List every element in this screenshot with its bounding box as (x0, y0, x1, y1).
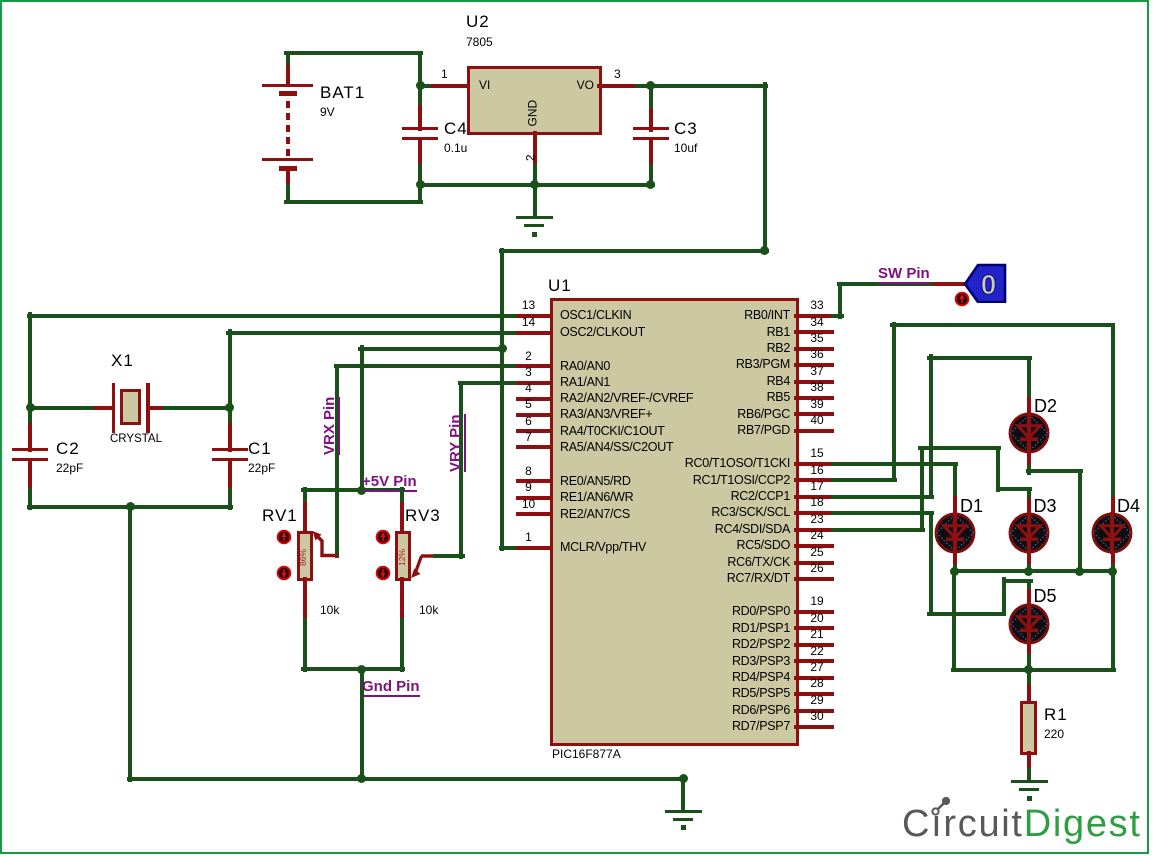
X1 label (111, 351, 134, 370)
D2 top pin (1027, 397, 1031, 416)
junction +5V pin node (357, 486, 366, 495)
LED D5 (1006, 601, 1052, 647)
wire gnd stem (533, 183, 537, 219)
U1 pin 27 number (810, 661, 823, 674)
capacitor C4 plate1 (402, 127, 438, 130)
wire U2 gnd (533, 164, 537, 188)
RV1 percent (299, 549, 309, 566)
RV1 bottom wire (303, 618, 307, 672)
net VRX Pin (322, 397, 339, 455)
RV3 percent (398, 549, 408, 566)
wire cathode bus (951, 569, 1115, 573)
D5 label (1034, 586, 1057, 606)
U2 VI (479, 79, 490, 92)
U1 pin 7 stub (516, 445, 553, 449)
junction vcc tee (498, 344, 507, 353)
wire +5V pin rail (301, 488, 405, 492)
U1 pin label RA0/AN0 (560, 359, 610, 373)
net Gnd Pin (362, 679, 420, 696)
R1 top pin (1027, 684, 1031, 704)
U1 pin 30 number (810, 710, 823, 723)
ground bottom dot (681, 825, 686, 830)
U1 pin 39 stub (794, 412, 834, 416)
U1 pin 3 number (525, 366, 532, 379)
wire RC4 (831, 528, 925, 532)
wire RC2 up (929, 354, 933, 498)
U2 pin1 number (441, 68, 448, 81)
junction bus D4 (1108, 567, 1117, 576)
RV3 up button (375, 529, 391, 545)
U1 pin 20 stub (794, 626, 834, 630)
R1 bottom pin (1027, 751, 1031, 773)
U1 pin 29 stub (794, 709, 834, 713)
U1 pin 17 stub (794, 495, 834, 499)
wire RC2 down D2 (1027, 356, 1031, 402)
U1 pin label RC4/SDI/SDA (715, 522, 790, 536)
wire RC3 down D5 (1027, 579, 1031, 594)
SW red link (933, 282, 967, 286)
wire RC4 down (996, 446, 1000, 492)
wire C2 bottom (28, 488, 32, 510)
potentiometer RV3 (395, 531, 411, 582)
capacitor C1 value (248, 462, 275, 475)
wire RB0 out (831, 314, 844, 318)
D1 bottom pin (953, 551, 957, 569)
capacitor C3 label (674, 119, 698, 138)
U1 pin label RD6/PSP6 (732, 703, 790, 717)
U2 pin3 number (614, 68, 621, 81)
wire D2 across (1026, 469, 1083, 473)
ground right bar1 (1011, 780, 1048, 783)
capacitor C2 label (56, 439, 80, 458)
U1 pin label RC1/T1OSI/CCP2 (693, 473, 790, 487)
wire OSC2 (226, 331, 520, 335)
wire R1 top (1027, 668, 1031, 689)
U1 pin label RA1/AN1 (560, 375, 610, 389)
wire C4 to node B (418, 164, 422, 188)
junction bus D3 (1024, 567, 1033, 576)
wire RC1 (831, 478, 897, 482)
wire RC2 (831, 495, 934, 499)
U1 pin 22 number (810, 645, 823, 658)
RV1 top wire (303, 487, 307, 507)
RV3 bottom pin (400, 577, 404, 623)
U1 pin label RA2/AN2/VREF-/CVREF (560, 391, 693, 405)
wire RC3 (831, 511, 934, 515)
U1 pin 40 number (810, 414, 823, 427)
wire RA1 (458, 381, 521, 385)
C3 bottom pin (649, 139, 653, 169)
U1 pin 17 number (810, 480, 823, 493)
U1 pin 15 number (810, 447, 823, 460)
U1 pin 36 number (810, 348, 823, 361)
wire vcc left (499, 249, 769, 253)
capacitor C4 plate2 (402, 137, 438, 140)
RV1 value 10k (320, 604, 339, 617)
wire vcc branch (358, 347, 505, 351)
U1 pin label RB3/PGM (736, 357, 790, 371)
RV1 label (262, 506, 298, 525)
U1 pin 5 stub (516, 413, 553, 417)
wire RA0 (334, 364, 521, 368)
RV1 down button (276, 565, 292, 581)
U1 pin 38 stub (794, 396, 834, 400)
wire battery+ top (284, 51, 423, 55)
ground top bar2 (524, 224, 544, 227)
wire bus right down (1111, 569, 1115, 672)
microcontroller U1 PIC16F877A (550, 298, 799, 746)
U1 pin 19 stub (794, 610, 834, 614)
U1 pin label RB1 (767, 325, 790, 339)
wire crystal gnd (27, 505, 233, 509)
U1 pin label RC7/RX/DT (727, 571, 790, 585)
wire R1 gnd (1027, 768, 1031, 782)
U1 pin label RC5/SDO (737, 538, 790, 552)
RV1 up button (276, 529, 292, 545)
U1 pin 4 number (525, 382, 532, 395)
U1 pin 22 stub (794, 659, 834, 663)
U2 value 7805 (466, 36, 493, 49)
C2 top pin (28, 423, 32, 452)
U1 pin 29 number (810, 694, 823, 707)
wire node C down (649, 84, 653, 113)
wire osc1 left vert (28, 312, 32, 410)
wire C1 bottom (228, 488, 232, 510)
C3 top pin (649, 108, 653, 132)
U1 pin 14 stub (516, 331, 553, 335)
wire SW pin (837, 282, 938, 286)
wire RC3 up (1002, 577, 1006, 615)
U1 pin 1 number (525, 531, 532, 544)
U1 pin label RC2/CCP1 (731, 489, 790, 503)
wire U2 to node C (635, 84, 654, 88)
potentiometer RV1 (297, 531, 313, 582)
RV3 top pin (400, 502, 404, 534)
U1 pin label RB5 (767, 390, 790, 404)
CircuitDigest logo (902, 803, 1142, 846)
D5 bottom pin (1027, 642, 1031, 658)
wire battery+ vert (286, 51, 290, 70)
U1 pin 33 stub (794, 314, 834, 318)
U1 pin 34 number (810, 316, 823, 329)
RV3 top wire (400, 487, 404, 507)
wire MCLR (499, 546, 521, 550)
RV1 top pin (303, 502, 307, 534)
crystal X1 (112, 383, 116, 433)
U1 pin label RB0/INT (744, 308, 790, 322)
net VRY Pin (448, 414, 465, 472)
U1 pin label RD7/PSP7 (732, 719, 790, 733)
U1 pin 5 number (525, 398, 532, 411)
X1 right pin (146, 406, 166, 410)
capacitor C4 label (444, 119, 468, 138)
junction bus D1 (950, 567, 959, 576)
junction bus D2 (1075, 567, 1084, 576)
U1 pin 21 number (810, 628, 823, 641)
U1 pin 34 stub (794, 330, 834, 334)
U1 pin 1 stub (516, 546, 553, 550)
junction R1 node (1024, 665, 1033, 674)
wire RC4 down D3 (1027, 487, 1031, 503)
U1 pin 16 number (810, 464, 823, 477)
capacitor C1 label (248, 439, 272, 458)
wire gnd pin down (360, 667, 364, 781)
U1 pin 24 number (810, 529, 823, 542)
U1 pin 26 number (810, 562, 823, 575)
wire C3 to bus (649, 164, 653, 188)
C4 top pin (418, 105, 422, 131)
D2 bottom pin (1027, 450, 1031, 468)
U1 pin label RC0/T1OSO/T1CKI (685, 456, 790, 470)
resistor R1 (1020, 701, 1037, 755)
U1 pin 10 stub (516, 512, 553, 516)
D2 label (1034, 396, 1057, 416)
U2 pin2 number (525, 154, 538, 161)
U1 pin label RD3/PSP3 (732, 654, 790, 668)
wire anode bus (951, 668, 1116, 672)
U1 pin 25 stub (794, 561, 834, 565)
wire node A down (418, 84, 422, 110)
U1 pin 35 stub (794, 347, 834, 351)
logo i decoration (928, 795, 954, 817)
U2 pin3 stub (597, 84, 639, 88)
wire bottom to node B (418, 183, 422, 204)
junction node B (416, 180, 425, 189)
wire battery- bottom (284, 200, 423, 204)
wire D3 to bus (1027, 564, 1031, 574)
D1 top pin (953, 496, 957, 516)
wire vcc down right (763, 82, 767, 254)
R1 value 220 (1044, 728, 1064, 741)
U1 pin 37 number (810, 365, 823, 378)
wire D5 to bus (1027, 654, 1031, 672)
RV3 label (405, 506, 441, 525)
value 9V (320, 106, 335, 119)
capacitor C2 value (56, 462, 83, 475)
RV3 wiper (408, 550, 440, 580)
U1 pin label RB7/PGD (737, 423, 790, 437)
U1 pin label RE1/AN6/WR (560, 490, 633, 504)
U2 GND (527, 100, 540, 127)
junction crystal left (26, 403, 35, 412)
U1 pin label OSC1/CLKIN (560, 308, 631, 322)
wire RB0 up (838, 282, 842, 319)
junction crystal gnd (126, 502, 135, 511)
U1 pin 2 number (525, 350, 532, 363)
capacitor C2 plate2 (12, 458, 48, 461)
C1 bottom pin (228, 459, 232, 493)
wire RC1 top (890, 323, 1115, 327)
wire D2 to bus (1078, 469, 1082, 574)
U1 pin 18 stub (794, 511, 834, 515)
U2 label (466, 12, 490, 31)
wire RC1 down D4 (1111, 323, 1115, 501)
wire RC3 top (1002, 579, 1033, 583)
junction vcc corner (760, 246, 769, 255)
U1 pin 25 number (810, 546, 823, 559)
LED D2 (1006, 410, 1052, 456)
battery top pin (286, 65, 290, 87)
wire battery- vert (286, 184, 290, 204)
X1 left pin (94, 406, 114, 410)
U1 pin 35 number (810, 332, 823, 345)
RV3 down button (375, 565, 391, 581)
U1 pin label RA4/T0CKI/C1OUT (560, 424, 665, 438)
U1 pin 6 number (525, 415, 532, 428)
RV3 value 10k (419, 604, 438, 617)
LED D4 (1089, 510, 1135, 556)
U1 label (548, 276, 572, 295)
R1 label (1044, 705, 1068, 724)
capacitor C3 plate1 (633, 127, 669, 130)
U1 pin 2 stub (516, 364, 553, 368)
U1 pin 28 stub (794, 692, 834, 696)
capacitor C2 plate1 (12, 448, 48, 451)
U1 pin 14 number (522, 316, 535, 329)
U1 pin label RE2/AN7/CS (560, 507, 630, 521)
wire RC1 up (892, 322, 896, 482)
D3 top pin (1027, 498, 1031, 516)
wire crystal gnd down (128, 505, 132, 782)
junction node A (416, 81, 425, 90)
wire VRX vert (335, 364, 339, 558)
U1 pin label RD4/PSP4 (732, 670, 790, 684)
U1 pin label RC3/SCK/SCL (711, 505, 790, 519)
U1 pin label RA3/AN3/VREF+ (560, 407, 652, 421)
U1 pin 18 number (810, 496, 823, 509)
junction crystal right (225, 403, 234, 412)
wire RC4 up (920, 446, 924, 532)
RV1 bottom pin (303, 577, 307, 623)
U1 pin label MCLR/Vpp/THV (560, 540, 646, 554)
U1 pin 36 stub (794, 363, 834, 367)
U1 pin 38 number (810, 381, 823, 394)
U1 pin label OSC2/CLKOUT (560, 325, 645, 339)
U1 pin label RB4 (767, 374, 790, 388)
junction C3 gnd (646, 180, 655, 189)
connector J0 (SW) (963, 263, 1008, 303)
X1 value CRYSTAL (110, 433, 162, 446)
wire C1 top (228, 406, 232, 428)
wire crystal left (27, 406, 99, 410)
D5 top pin (1027, 589, 1031, 605)
junction bottom 2 (679, 774, 688, 783)
wire bus left down (952, 569, 956, 672)
wire D4 to bus (1111, 564, 1115, 574)
ground bottom bar1 (665, 810, 702, 813)
capacitor C3 plate2 (633, 137, 669, 140)
RV3 wiper link green (433, 554, 465, 558)
U1 pin label RD5/PSP5 (732, 686, 790, 700)
capacitor C3 value (674, 142, 697, 155)
D3 bottom pin (1027, 551, 1031, 569)
U1 pin label RA5/AN4/SS/C2OUT (560, 440, 673, 454)
U1 pin 8 stub (516, 479, 553, 483)
C2 bottom pin (28, 459, 32, 493)
U1 pin 10 number (522, 498, 535, 511)
U1 pin 33 number (810, 299, 823, 312)
U2 VO (577, 79, 594, 92)
U1 pin 4 stub (516, 397, 553, 401)
U1 pin 27 stub (794, 676, 834, 680)
ground bottom bar2 (673, 818, 693, 821)
wire bottom gnd rail (127, 777, 687, 781)
battery BAT1 (262, 84, 313, 87)
wire D1 to bus (953, 564, 957, 574)
RV1 wiper (311, 530, 341, 559)
U1 pin 24 stub (794, 544, 834, 548)
SW button (954, 291, 970, 307)
U1 value PIC16F877A (552, 748, 621, 761)
U2 pin1 stub (431, 84, 471, 88)
U1 pin 16 stub (794, 478, 834, 482)
wire nodeC right (648, 84, 768, 88)
U1 pin 7 number (525, 431, 532, 444)
U1 pin 23 stub (794, 528, 834, 532)
wire top to node A (418, 51, 422, 89)
wire osc2 left vert (228, 329, 232, 411)
U1 pin 37 stub (794, 380, 834, 384)
ground top dot (532, 232, 537, 237)
junction node C (646, 81, 655, 90)
U1 pin label RD0/PSP0 (732, 604, 790, 618)
U1 pin 26 stub (794, 577, 834, 581)
U1 pin label RB2 (767, 341, 790, 355)
wire vcc rail (500, 248, 504, 551)
wire RC0 (831, 462, 958, 466)
U1 pin 9 stub (516, 496, 553, 500)
D4 top pin (1111, 497, 1115, 515)
U1 pin 13 number (522, 299, 535, 312)
wire RC3 across (927, 612, 1006, 616)
wire OSC1 (27, 314, 521, 318)
junction bottom 1 (357, 774, 366, 783)
wire D2 down (1027, 465, 1031, 475)
LED D3 (1006, 510, 1052, 556)
U1 pin 13 stub (516, 314, 553, 318)
wire RC4 across2 (996, 487, 1032, 491)
wire vcc branch down (360, 345, 364, 493)
U1 pin 9 number (525, 481, 532, 494)
U1 pin label RD2/PSP2 (732, 637, 790, 651)
U1 pin label RD1/PSP1 (732, 621, 790, 635)
U1 pin 30 stub (794, 725, 834, 729)
U1 pin 23 number (810, 513, 823, 526)
wire RC2 top (927, 356, 1032, 360)
net +5V Pin (362, 474, 417, 491)
battery - pin (286, 168, 290, 188)
LED D1 (932, 510, 978, 556)
wire RC0 down (953, 462, 957, 501)
D4 label (1117, 496, 1140, 516)
U1 pin 28 number (810, 677, 823, 690)
U1 pin 40 stub (794, 429, 834, 433)
C4 bottom pin (418, 139, 422, 169)
wire nodeA to U2 (417, 84, 436, 88)
wire gnd bus (417, 183, 655, 187)
wire RC3 down (929, 511, 933, 616)
ground right bar2 (1019, 788, 1039, 791)
svg-text:0: 0 (981, 269, 997, 300)
capacitor C4 value (444, 142, 467, 155)
U1 pin 6 stub (516, 429, 553, 433)
D4 bottom pin (1111, 551, 1115, 569)
U1 pin 21 stub (794, 643, 834, 647)
junction U2 gnd (530, 180, 539, 189)
ground top bar1 (516, 216, 553, 219)
wire VRY vert (459, 381, 463, 559)
junction gnd pin node (357, 665, 366, 674)
